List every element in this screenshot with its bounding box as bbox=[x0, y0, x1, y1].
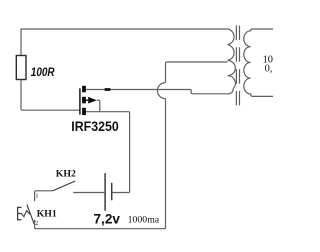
transistor Q1 gate line bbox=[79, 88, 81, 114]
resistor R1 body bbox=[16, 56, 26, 80]
wire left rail lower to gate bbox=[21, 80, 80, 111]
svg-text:100R: 100R bbox=[31, 65, 55, 79]
wire drain line to transformer bbox=[86, 89, 233, 94]
wire left rail upper bbox=[20, 29, 22, 56]
transistor Q1 body arrow bbox=[86, 97, 97, 104]
wire source to battery positive bbox=[86, 112, 130, 193]
svg-text:1000ma: 1000ma bbox=[128, 214, 160, 225]
junction dot on drain line bbox=[105, 88, 111, 91]
wire KH1 bottom pin and bottom rail bbox=[35, 99, 166, 229]
battery BT1 long plate bbox=[104, 173, 106, 211]
switch KH1 actuator bracket bbox=[18, 207, 22, 219]
transistor Q1 source bar bbox=[82, 108, 86, 115]
svg-text:7,2v: 7,2v bbox=[94, 212, 121, 227]
switch KH2 lever bbox=[53, 181, 76, 191]
battery BT1 short plate bbox=[111, 183, 113, 201]
svg-text:1: 1 bbox=[35, 192, 38, 199]
wire battery negative to switch KH2 bbox=[73, 192, 104, 194]
svg-text:0,: 0, bbox=[265, 63, 273, 74]
transistor Q1 drain bar bbox=[82, 86, 86, 93]
switch KH1 actuator spring link bbox=[21, 211, 30, 217]
wire top rail bbox=[21, 28, 228, 30]
wire body arrow to source bbox=[97, 100, 100, 111]
transformer T1 secondary winding bbox=[244, 29, 273, 96]
svg-text:KH1: KH1 bbox=[37, 209, 57, 220]
svg-text:KH2: KH2 bbox=[56, 169, 76, 180]
wire hop over drain line bbox=[157, 83, 165, 99]
transformer T1 core bbox=[236, 26, 239, 107]
svg-text:IRF3250: IRF3250 bbox=[71, 118, 119, 134]
wire riser to transformer center tap bbox=[166, 62, 228, 83]
svg-text:2: 2 bbox=[35, 220, 38, 227]
switch KH1 lever bbox=[27, 205, 34, 225]
transistor Q1 body bar bbox=[82, 97, 86, 104]
wire KH1 top pin to KH2 bbox=[35, 191, 53, 201]
transformer T1 primary winding lower bbox=[228, 61, 236, 89]
transformer T1 primary winding upper bbox=[228, 29, 235, 61]
